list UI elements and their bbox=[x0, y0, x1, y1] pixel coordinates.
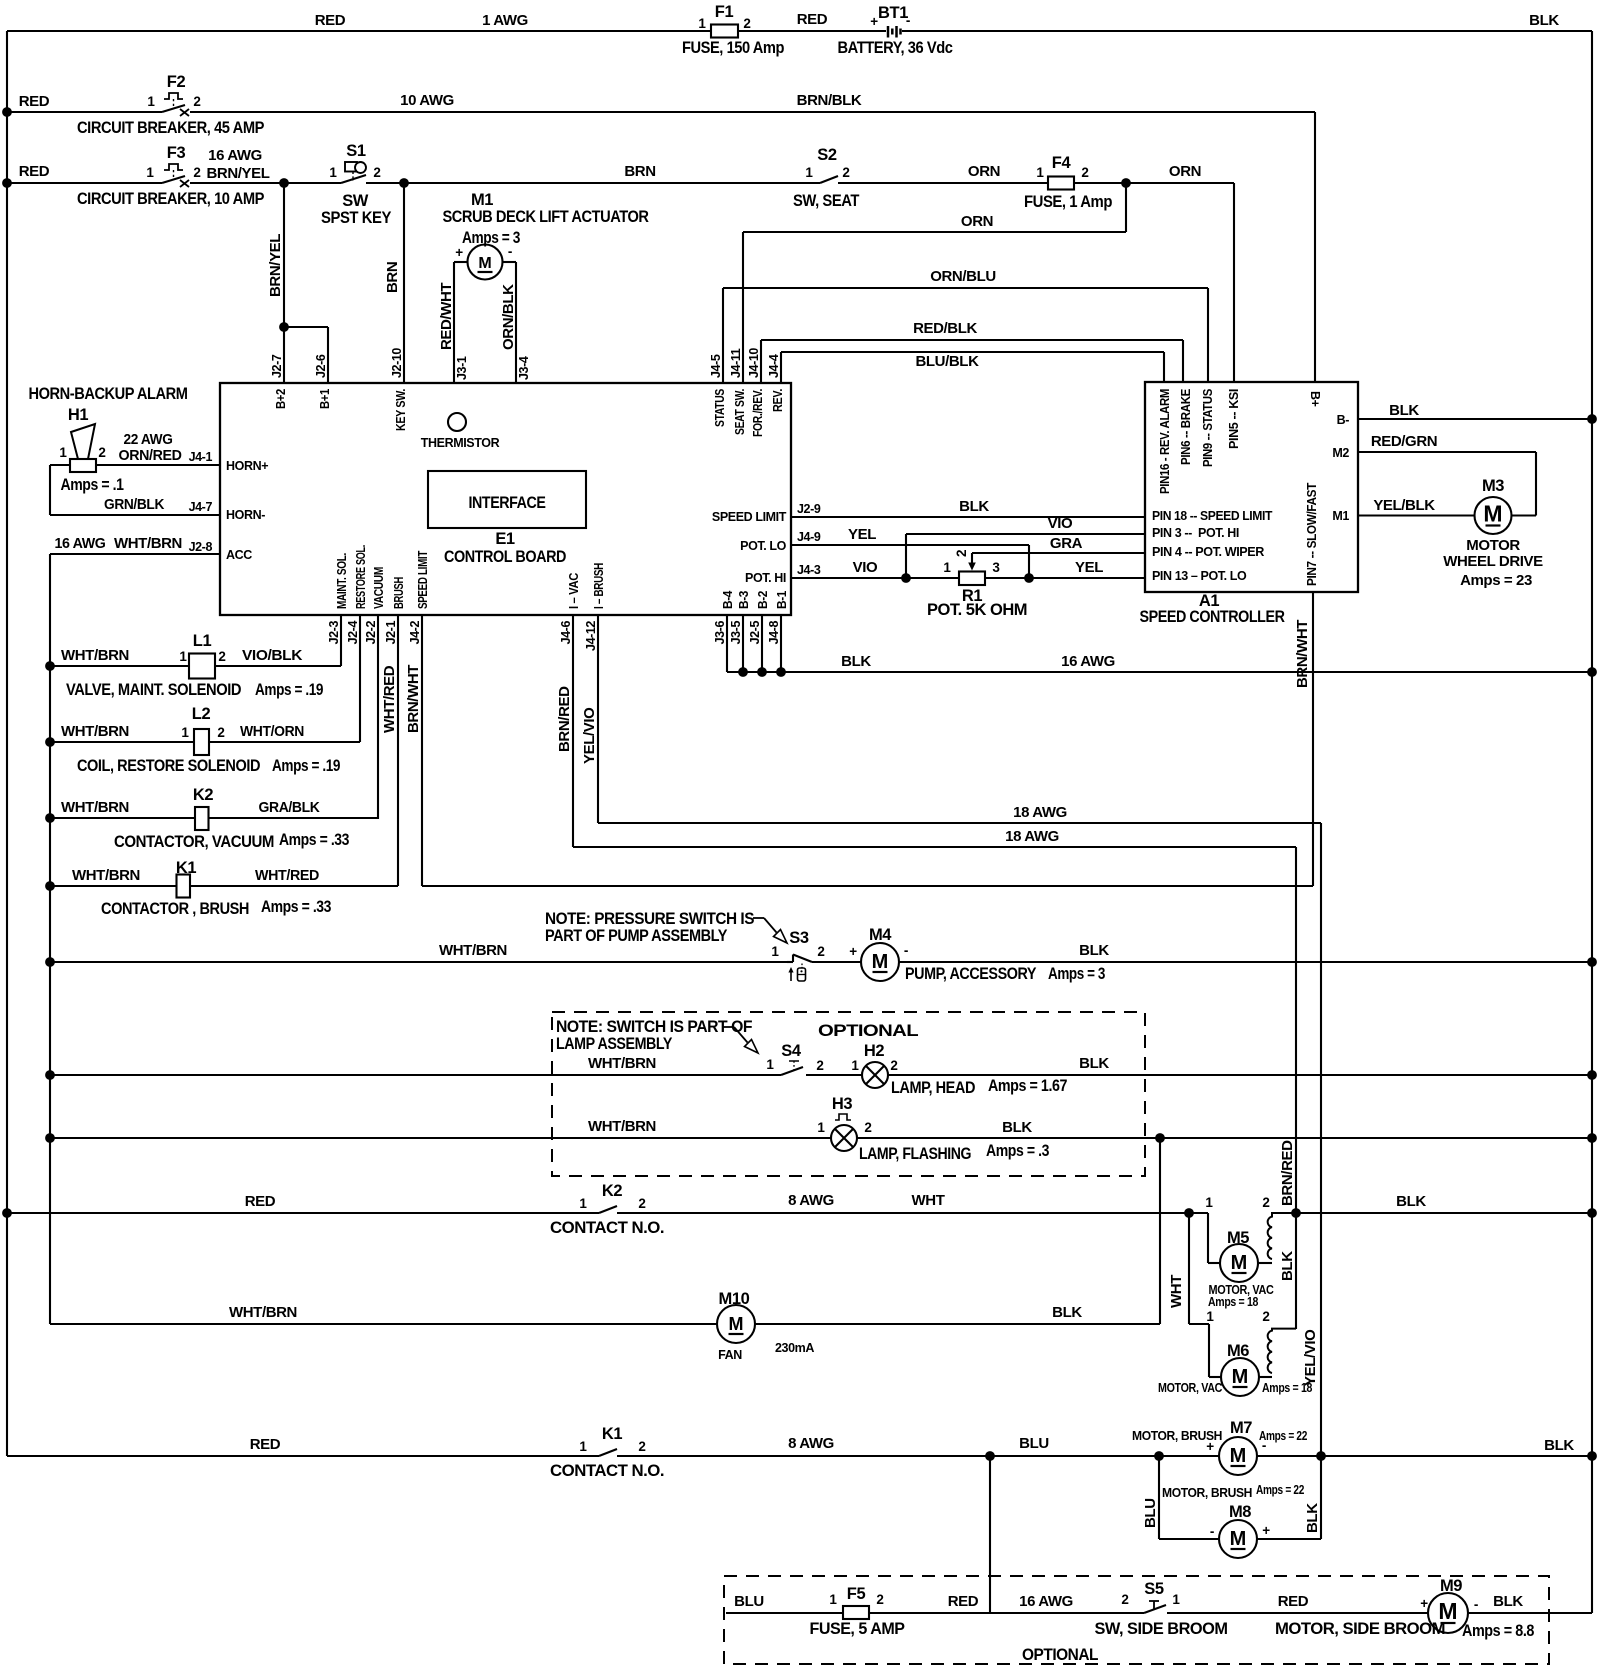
svg-text:BLU: BLU bbox=[1019, 1435, 1049, 1452]
svg-text:RESTORE SOL.: RESTORE SOL. bbox=[354, 545, 368, 609]
wire ORN branch to J4-11 bbox=[1125, 183, 1127, 232]
lamp H2 head bbox=[862, 1062, 888, 1088]
wire WHT/BRN to K2 coil bbox=[50, 817, 194, 819]
svg-text:RED/WHT: RED/WHT bbox=[438, 283, 455, 350]
wire YEL J4-9 pot lo bbox=[791, 544, 1029, 546]
svg-text:COIL, RESTORE SOLENOID: COIL, RESTORE SOLENOID bbox=[77, 757, 261, 775]
svg-text:S3: S3 bbox=[789, 929, 809, 947]
svg-text:Amps = 18: Amps = 18 bbox=[1208, 1295, 1258, 1309]
svg-text:2: 2 bbox=[373, 165, 380, 180]
wire BLK M7 to right rail bbox=[1257, 1455, 1592, 1457]
svg-text:Amps = .3: Amps = .3 bbox=[986, 1142, 1049, 1160]
wire ORN/RED H1 to J4-1 bbox=[96, 464, 220, 466]
svg-text:1: 1 bbox=[698, 16, 706, 31]
svg-text:1: 1 bbox=[181, 725, 189, 740]
svg-text:B-1: B-1 bbox=[775, 591, 789, 609]
svg-text:3: 3 bbox=[992, 560, 1000, 575]
switch S4 lamp bbox=[781, 1067, 803, 1075]
wire left rail RED bbox=[6, 31, 8, 1456]
wire WHT down to M6 bbox=[1188, 1213, 1190, 1324]
svg-text:1: 1 bbox=[805, 165, 813, 180]
motor M3 wheel drive bbox=[1475, 497, 1512, 534]
wire BLK M5 row to right rail bbox=[1277, 1212, 1592, 1214]
wire BLK M4 to right rail bbox=[899, 961, 1592, 963]
svg-text:2: 2 bbox=[638, 1439, 645, 1454]
svg-text:WHT/RED: WHT/RED bbox=[381, 665, 398, 733]
svg-text:2: 2 bbox=[954, 550, 969, 557]
svg-text:J3-6: J3-6 bbox=[713, 621, 727, 645]
svg-text:J2-9: J2-9 bbox=[797, 502, 821, 516]
svg-text:WHT/BRN: WHT/BRN bbox=[588, 1055, 656, 1072]
svg-text:1: 1 bbox=[1036, 165, 1044, 180]
svg-text:M7: M7 bbox=[1230, 1419, 1252, 1437]
svg-text:1: 1 bbox=[1205, 1195, 1213, 1210]
svg-text:CIRCUIT BREAKER, 10 AMP: CIRCUIT BREAKER, 10 AMP bbox=[77, 190, 264, 208]
svg-text:SEAT SW.: SEAT SW. bbox=[733, 389, 747, 435]
svg-text:WHT/BRN: WHT/BRN bbox=[72, 867, 140, 884]
svg-text:PIN 18 -- SPEED LIMIT: PIN 18 -- SPEED LIMIT bbox=[1152, 509, 1273, 523]
svg-text:1: 1 bbox=[1206, 1309, 1214, 1324]
svg-text:YEL: YEL bbox=[848, 526, 876, 543]
svg-text:ORN/BLK: ORN/BLK bbox=[500, 284, 517, 350]
motor M7 brush bbox=[1219, 1437, 1257, 1475]
svg-text:Amps = .33: Amps = .33 bbox=[279, 831, 349, 849]
svg-text:KEY SW.: KEY SW. bbox=[394, 389, 408, 431]
svg-text:J3-1: J3-1 bbox=[455, 356, 469, 380]
wire RED to K1 contact bbox=[7, 1455, 599, 1457]
wire BLU drop to M8 bbox=[1158, 1456, 1160, 1539]
thermistor bbox=[448, 413, 466, 431]
svg-text:Amps = .19: Amps = .19 bbox=[255, 681, 323, 699]
wire B+ BRN/BLK drop to A1 bbox=[1314, 112, 1316, 382]
wire top positive rail RED 1 AWG bbox=[7, 30, 711, 32]
svg-text:BRN/RED: BRN/RED bbox=[556, 686, 573, 752]
wire WHT/BRN to S3 bbox=[50, 961, 787, 963]
svg-text:1: 1 bbox=[179, 649, 187, 664]
svg-text:J2-7: J2-7 bbox=[270, 354, 284, 378]
wire BRN key switch to J2-10 bbox=[403, 183, 405, 383]
svg-text:S5: S5 bbox=[1144, 1580, 1164, 1598]
svg-text:2: 2 bbox=[1081, 165, 1088, 180]
wire BLU to F5 bbox=[726, 1612, 990, 1614]
svg-text:YEL: YEL bbox=[1075, 559, 1103, 576]
wire YEL pot to PIN13 bbox=[985, 577, 1145, 579]
svg-text:POT. 5K OHM: POT. 5K OHM bbox=[927, 601, 1027, 619]
svg-text:B+: B+ bbox=[1308, 391, 1322, 407]
svg-text:CONTACT N.O.: CONTACT N.O. bbox=[550, 1219, 664, 1237]
svg-text:M: M bbox=[1230, 1528, 1247, 1550]
svg-text:ACC: ACC bbox=[226, 548, 252, 562]
svg-text:-: - bbox=[1210, 1524, 1214, 1539]
svg-text:M5: M5 bbox=[1227, 1229, 1249, 1247]
svg-text:CIRCUIT BREAKER, 45 AMP: CIRCUIT BREAKER, 45 AMP bbox=[77, 119, 264, 137]
svg-text:WHT/BRN: WHT/BRN bbox=[114, 535, 182, 552]
svg-text:J2-10: J2-10 bbox=[390, 348, 404, 378]
svg-text:F1: F1 bbox=[715, 3, 734, 21]
svg-text:OPTIONAL: OPTIONAL bbox=[818, 1022, 919, 1040]
svg-text:2: 2 bbox=[876, 1592, 883, 1607]
wire WHT/BRN to H3 bbox=[50, 1137, 831, 1139]
svg-text:J4-10: J4-10 bbox=[747, 348, 761, 378]
circuit breaker F3 bbox=[162, 176, 185, 183]
svg-text:SPST KEY: SPST KEY bbox=[321, 209, 391, 227]
wire RED S5 to M9 bbox=[1167, 1612, 1428, 1614]
svg-text:Amps = 23: Amps = 23 bbox=[1460, 572, 1532, 589]
wire BLK H2 to right rail bbox=[888, 1074, 1592, 1076]
svg-text:YEL/VIO: YEL/VIO bbox=[581, 707, 598, 764]
svg-text:FUSE, 5 AMP: FUSE, 5 AMP bbox=[810, 1620, 905, 1638]
svg-text:2: 2 bbox=[1262, 1195, 1269, 1210]
svg-text:WHT/ORN: WHT/ORN bbox=[240, 723, 304, 740]
svg-text:CONTROL BOARD: CONTROL BOARD bbox=[444, 548, 567, 566]
svg-text:RED: RED bbox=[19, 163, 50, 180]
svg-text:ORN/BLU: ORN/BLU bbox=[930, 268, 996, 285]
wire 16 AWG BRN/YEL bbox=[190, 182, 341, 184]
lamp H3 flashing bbox=[831, 1125, 857, 1151]
svg-text:BLU: BLU bbox=[734, 1593, 764, 1610]
svg-text:2: 2 bbox=[218, 649, 225, 664]
svg-text:1: 1 bbox=[1172, 1592, 1180, 1607]
wire GRA/BLK K2 to J2-2 bbox=[209, 817, 378, 819]
wire BLK M9 to right rail bbox=[1468, 1612, 1592, 1614]
svg-text:J2-2: J2-2 bbox=[364, 621, 378, 645]
wire GRN/BLK H1 to J4-7 bbox=[50, 464, 70, 466]
svg-text:Amps = .19: Amps = .19 bbox=[272, 757, 340, 775]
switch S3 pressure bbox=[787, 961, 793, 963]
svg-text:-: - bbox=[1474, 1597, 1478, 1612]
svg-text:WHT: WHT bbox=[1168, 1275, 1185, 1308]
svg-text:230mA: 230mA bbox=[775, 1341, 814, 1355]
svg-text:Amps = 3: Amps = 3 bbox=[1048, 965, 1105, 983]
svg-text:2: 2 bbox=[98, 445, 105, 460]
svg-text:B-3: B-3 bbox=[737, 591, 751, 609]
motor M9 side broom bbox=[1428, 1593, 1468, 1633]
solenoid L2 restore coil bbox=[194, 729, 209, 755]
wire VIO pot hi to PIN3 bbox=[905, 534, 907, 578]
svg-text:2: 2 bbox=[816, 1058, 823, 1073]
svg-text:CONTACTOR , BRUSH: CONTACTOR , BRUSH bbox=[101, 900, 249, 918]
svg-text:M6: M6 bbox=[1227, 1342, 1249, 1360]
motor M1 scrub deck lift actuator bbox=[468, 245, 503, 280]
control board E1 bbox=[220, 383, 791, 615]
svg-text:BLK: BLK bbox=[1079, 942, 1109, 959]
svg-text:1: 1 bbox=[943, 560, 951, 575]
svg-text:I – BRUSH: I – BRUSH bbox=[592, 563, 606, 609]
svg-text:POT. HI: POT. HI bbox=[745, 571, 786, 585]
svg-text:2: 2 bbox=[890, 1058, 897, 1073]
svg-text:M: M bbox=[872, 951, 889, 973]
svg-text:FUSE, 1 Amp: FUSE, 1 Amp bbox=[1024, 193, 1112, 211]
svg-text:SPEED CONTROLLER: SPEED CONTROLLER bbox=[1140, 608, 1285, 626]
svg-text:BLK: BLK bbox=[841, 653, 871, 670]
switch S2 seat bbox=[820, 176, 838, 183]
svg-text:1: 1 bbox=[771, 944, 779, 959]
svg-text:2: 2 bbox=[817, 944, 824, 959]
svg-text:L2: L2 bbox=[192, 705, 211, 723]
wire BRN/RED J4-6 18 AWG bbox=[572, 615, 574, 847]
svg-text:PIN16 - REV. ALARM: PIN16 - REV. ALARM bbox=[1158, 389, 1172, 494]
wire BRN S1 to S2 bbox=[366, 182, 820, 184]
svg-text:RED: RED bbox=[948, 1593, 979, 1610]
wire GRA/BLK J2-2 to K2 bbox=[377, 615, 379, 819]
wire WHT/BRN to L1 bbox=[50, 665, 189, 667]
svg-text:18 AWG: 18 AWG bbox=[1005, 828, 1059, 845]
svg-text:OPTIONAL: OPTIONAL bbox=[1022, 1646, 1098, 1664]
svg-text:F2: F2 bbox=[167, 73, 186, 91]
svg-text:WHT/RED: WHT/RED bbox=[255, 867, 320, 884]
svg-text:HORN+: HORN+ bbox=[226, 459, 268, 473]
svg-text:+: + bbox=[870, 14, 878, 29]
wire right rail BLK bbox=[1591, 31, 1593, 1613]
wire S3 to M4 bbox=[812, 961, 861, 963]
svg-text:Amps = 18: Amps = 18 bbox=[1262, 1381, 1312, 1395]
optional side broom dashed box bbox=[724, 1576, 1549, 1664]
svg-text:PIN 3 -- POT. HI: PIN 3 -- POT. HI bbox=[1152, 526, 1239, 540]
wire BLK B- to right rail bbox=[1358, 418, 1592, 420]
contactor coil K2 bbox=[195, 807, 209, 830]
svg-text:BLK: BLK bbox=[1389, 402, 1419, 419]
svg-text:WHT/BRN: WHT/BRN bbox=[439, 942, 507, 959]
svg-text:BATTERY, 36 Vdc: BATTERY, 36 Vdc bbox=[838, 39, 953, 57]
motor M4 pump accessory bbox=[861, 943, 899, 981]
wire WHT/BRN to K1 coil bbox=[50, 885, 176, 887]
svg-text:MOTOR, SIDE BROOM: MOTOR, SIDE BROOM bbox=[1275, 1620, 1445, 1638]
svg-text:GRA/BLK: GRA/BLK bbox=[259, 799, 321, 816]
svg-text:RED: RED bbox=[1278, 1593, 1309, 1610]
svg-text:BRN/YEL: BRN/YEL bbox=[267, 234, 284, 297]
wire RED to K2 contact bbox=[7, 1212, 599, 1214]
svg-text:+: + bbox=[455, 245, 463, 260]
wire BLK 16 AWG bus bbox=[727, 671, 1592, 673]
svg-text:BLK: BLK bbox=[1396, 1193, 1426, 1210]
svg-text:+: + bbox=[1262, 1523, 1270, 1538]
svg-text:J3-4: J3-4 bbox=[517, 356, 531, 380]
contact K1 N.O. bbox=[599, 1449, 617, 1456]
wire YEL/VIO J4-12 18 AWG bbox=[597, 615, 599, 823]
svg-text:CONTACTOR, VACUUM: CONTACTOR, VACUUM bbox=[114, 833, 274, 851]
wire BLK M8 to M7 row bbox=[1257, 1538, 1321, 1540]
wire F2 row RED 10 AWG BRN/BLK bbox=[7, 111, 162, 113]
svg-text:PIN6 -- BRAKE: PIN6 -- BRAKE bbox=[1179, 389, 1193, 465]
svg-text:WHT/BRN: WHT/BRN bbox=[229, 1304, 297, 1321]
svg-text:BLK: BLK bbox=[1304, 1503, 1321, 1533]
svg-text:1: 1 bbox=[147, 94, 155, 109]
contactor coil K1 bbox=[177, 875, 191, 898]
svg-text:-: - bbox=[906, 13, 910, 28]
svg-text:K2: K2 bbox=[193, 786, 214, 804]
svg-text:PART OF PUMP ASSEMBLY: PART OF PUMP ASSEMBLY bbox=[545, 927, 727, 945]
wire WHT M5 pin1 riser bbox=[1207, 1213, 1209, 1263]
svg-text:+: + bbox=[1420, 1596, 1428, 1611]
svg-text:1: 1 bbox=[817, 1120, 825, 1135]
svg-text:H1: H1 bbox=[68, 406, 89, 424]
motor M5 vacuum bbox=[1220, 1244, 1258, 1282]
wire RED/BLK J4-10 to PIN6 bbox=[760, 340, 762, 383]
svg-text:18 AWG: 18 AWG bbox=[1013, 804, 1067, 821]
wire GRA pot wiper to PIN4 bbox=[972, 552, 1145, 554]
svg-text:PIN9 -- STATUS: PIN9 -- STATUS bbox=[1201, 389, 1215, 467]
wire VIO/BLK J2-3 to L1 bbox=[340, 615, 342, 666]
svg-text:Amps = .1: Amps = .1 bbox=[61, 476, 124, 494]
wire WHT/BRN to L2 bbox=[50, 741, 194, 743]
svg-text:M10: M10 bbox=[719, 1290, 750, 1308]
svg-text:WHT/BRN: WHT/BRN bbox=[588, 1118, 656, 1135]
wire BLU/BLK J4-4 to PIN16 bbox=[780, 352, 782, 383]
svg-text:VALVE, MAINT. SOLENOID: VALVE, MAINT. SOLENOID bbox=[66, 681, 242, 699]
svg-text:M: M bbox=[1232, 1366, 1249, 1388]
svg-text:J2-8: J2-8 bbox=[189, 540, 213, 554]
svg-text:Amps = 1.67: Amps = 1.67 bbox=[988, 1077, 1067, 1095]
wire S4 to H2 bbox=[806, 1074, 862, 1076]
wire BLK H3 to right rail bbox=[857, 1137, 1592, 1139]
svg-text:VACUUM: VACUUM bbox=[372, 567, 386, 609]
svg-text:E1: E1 bbox=[495, 530, 515, 548]
svg-text:BLK: BLK bbox=[1052, 1304, 1082, 1321]
svg-text:BRN/WHT: BRN/WHT bbox=[1294, 620, 1311, 688]
svg-text:WHT: WHT bbox=[912, 1192, 945, 1209]
svg-text:1 AWG: 1 AWG bbox=[482, 12, 528, 29]
svg-text:Amps = .33: Amps = .33 bbox=[261, 898, 331, 916]
svg-text:BRN/BLK: BRN/BLK bbox=[797, 92, 862, 109]
wire B pins to BLK bus bbox=[726, 615, 728, 672]
fuse F1 bbox=[711, 25, 738, 38]
svg-text:BLK: BLK bbox=[1544, 1437, 1574, 1454]
svg-text:Amps = 22: Amps = 22 bbox=[1259, 1429, 1307, 1443]
svg-text:16 AWG: 16 AWG bbox=[1061, 653, 1115, 670]
switch S1 SPST KEY bbox=[341, 175, 366, 183]
svg-text:H2: H2 bbox=[864, 1042, 885, 1060]
svg-text:J4-1: J4-1 bbox=[189, 450, 213, 464]
wire K1 branch to F5 bbox=[989, 1456, 991, 1613]
wire ORN KSI drop bbox=[1233, 183, 1235, 382]
svg-text:I – VAC: I – VAC bbox=[567, 573, 581, 609]
svg-text:22 AWG: 22 AWG bbox=[124, 431, 173, 448]
svg-text:K2: K2 bbox=[602, 1182, 623, 1200]
optional lamp dashed box bbox=[552, 1012, 1145, 1176]
svg-text:SPEED LIMIT: SPEED LIMIT bbox=[712, 510, 787, 524]
svg-text:2: 2 bbox=[1121, 1592, 1128, 1607]
svg-text:THERMISTOR: THERMISTOR bbox=[421, 436, 500, 450]
wire ORN/BLU J4-5 to PIN9 bbox=[722, 288, 724, 383]
wire ORN F4 to KSI bbox=[1074, 182, 1234, 184]
svg-text:FAN: FAN bbox=[718, 1348, 742, 1362]
svg-text:BT1: BT1 bbox=[878, 4, 908, 22]
svg-text:K1: K1 bbox=[602, 1425, 623, 1443]
svg-text:J4-9: J4-9 bbox=[797, 530, 821, 544]
wire WHT/BRN to S4 bbox=[50, 1074, 781, 1076]
svg-text:-: - bbox=[508, 244, 512, 259]
svg-text:VIO/BLK: VIO/BLK bbox=[242, 647, 303, 664]
svg-text:-: - bbox=[904, 943, 908, 958]
svg-text:J4-12: J4-12 bbox=[584, 621, 598, 651]
wire WHT/RED J2-1 to K1 bbox=[397, 615, 399, 886]
svg-text:BLK: BLK bbox=[1493, 1593, 1523, 1610]
svg-text:8 AWG: 8 AWG bbox=[788, 1192, 834, 1209]
svg-text:BRN/YEL: BRN/YEL bbox=[206, 165, 269, 182]
svg-text:MAINT. SOL.: MAINT. SOL. bbox=[335, 553, 349, 609]
svg-text:PIN 4 -- POT. WIPER: PIN 4 -- POT. WIPER bbox=[1152, 545, 1264, 559]
svg-text:BRN/WHT: BRN/WHT bbox=[405, 665, 422, 733]
svg-text:J2-5: J2-5 bbox=[748, 621, 762, 645]
svg-text:2: 2 bbox=[743, 16, 750, 31]
svg-text:ORN: ORN bbox=[1169, 163, 1201, 180]
svg-text:M: M bbox=[1230, 1445, 1247, 1467]
svg-text:F4: F4 bbox=[1052, 154, 1072, 172]
wire BRN/WHT PIN7 speed limit bbox=[1312, 592, 1314, 886]
wire WHT/RED K1 to J2-1 bbox=[190, 885, 398, 887]
svg-text:1: 1 bbox=[766, 1057, 774, 1072]
wire F3 row RED bbox=[7, 182, 162, 184]
svg-text:2: 2 bbox=[638, 1196, 645, 1211]
svg-text:M3: M3 bbox=[1482, 477, 1504, 495]
svg-text:M: M bbox=[729, 1314, 744, 1334]
svg-text:MOTOR: MOTOR bbox=[1466, 537, 1520, 554]
svg-text:YEL/VIO: YEL/VIO bbox=[1302, 1329, 1319, 1386]
svg-text:J2-4: J2-4 bbox=[346, 621, 360, 645]
svg-text:J4-4: J4-4 bbox=[767, 354, 781, 378]
svg-text:MOTOR, BRUSH: MOTOR, BRUSH bbox=[1162, 1486, 1252, 1500]
svg-text:+: + bbox=[1206, 1439, 1214, 1454]
svg-text:1: 1 bbox=[829, 1592, 837, 1607]
svg-text:FOR./REV.: FOR./REV. bbox=[751, 389, 765, 437]
svg-text:GRN/BLK: GRN/BLK bbox=[104, 496, 165, 513]
wire BLK speed limit J2-9 to PIN18 bbox=[791, 516, 1145, 518]
svg-text:BLK: BLK bbox=[1079, 1055, 1109, 1072]
svg-text:VIO: VIO bbox=[853, 559, 878, 576]
svg-text:PIN5 -- KSI: PIN5 -- KSI bbox=[1227, 389, 1241, 449]
svg-text:MOTOR, VAC: MOTOR, VAC bbox=[1158, 1381, 1222, 1395]
svg-text:J4-8: J4-8 bbox=[767, 621, 781, 645]
svg-text:BLK: BLK bbox=[1529, 12, 1559, 29]
svg-text:RED: RED bbox=[245, 1193, 276, 1210]
wire 16 AWG WHT/BRN ACC bbox=[50, 553, 220, 555]
svg-text:WHT/BRN: WHT/BRN bbox=[61, 647, 129, 664]
inductor M5 field coil bbox=[1258, 1262, 1272, 1264]
svg-text:K1: K1 bbox=[176, 859, 197, 877]
wire ORN/BLK M1 to J3-4 bbox=[503, 261, 517, 263]
wire BRN/YEL to B+2 B+1 bbox=[283, 183, 285, 383]
svg-text:PUMP, ACCESSORY: PUMP, ACCESSORY bbox=[905, 965, 1036, 983]
svg-text:16 AWG: 16 AWG bbox=[208, 147, 262, 164]
svg-text:SCRUB DECK LIFT ACTUATOR: SCRUB DECK LIFT ACTUATOR bbox=[443, 208, 650, 226]
fuse F4 bbox=[1048, 177, 1074, 190]
svg-text:+: + bbox=[849, 944, 857, 959]
svg-text:CONTACT N.O.: CONTACT N.O. bbox=[550, 1462, 664, 1480]
svg-text:BLU: BLU bbox=[1142, 1498, 1159, 1528]
svg-text:J2-3: J2-3 bbox=[327, 621, 341, 645]
motor M6 vacuum bbox=[1221, 1358, 1259, 1396]
svg-text:BLK: BLK bbox=[1002, 1119, 1032, 1136]
svg-text:FUSE, 150 Amp: FUSE, 150 Amp bbox=[682, 39, 784, 57]
svg-text:B+1: B+1 bbox=[318, 389, 332, 409]
speed controller A1 bbox=[1145, 382, 1358, 592]
svg-text:1: 1 bbox=[329, 165, 337, 180]
potentiometer R1 5K bbox=[959, 572, 985, 586]
svg-text:J2-6: J2-6 bbox=[314, 354, 328, 378]
svg-text:1: 1 bbox=[579, 1439, 587, 1454]
wire VIO/BLK L1 to J2-3 bbox=[215, 665, 341, 667]
solenoid L1 maint valve bbox=[189, 654, 215, 679]
svg-text:10 AWG: 10 AWG bbox=[400, 92, 454, 109]
svg-text:VIO: VIO bbox=[1048, 515, 1073, 532]
svg-text:F5: F5 bbox=[847, 1585, 866, 1603]
svg-text:2: 2 bbox=[864, 1120, 871, 1135]
wire ORN S2 to F4 bbox=[838, 182, 1048, 184]
svg-text:M: M bbox=[1231, 1252, 1248, 1274]
svg-text:J4-2: J4-2 bbox=[408, 621, 422, 645]
svg-text:NOTE: SWITCH IS PART OF: NOTE: SWITCH IS PART OF bbox=[556, 1018, 752, 1036]
svg-text:STATUS: STATUS bbox=[713, 389, 727, 427]
